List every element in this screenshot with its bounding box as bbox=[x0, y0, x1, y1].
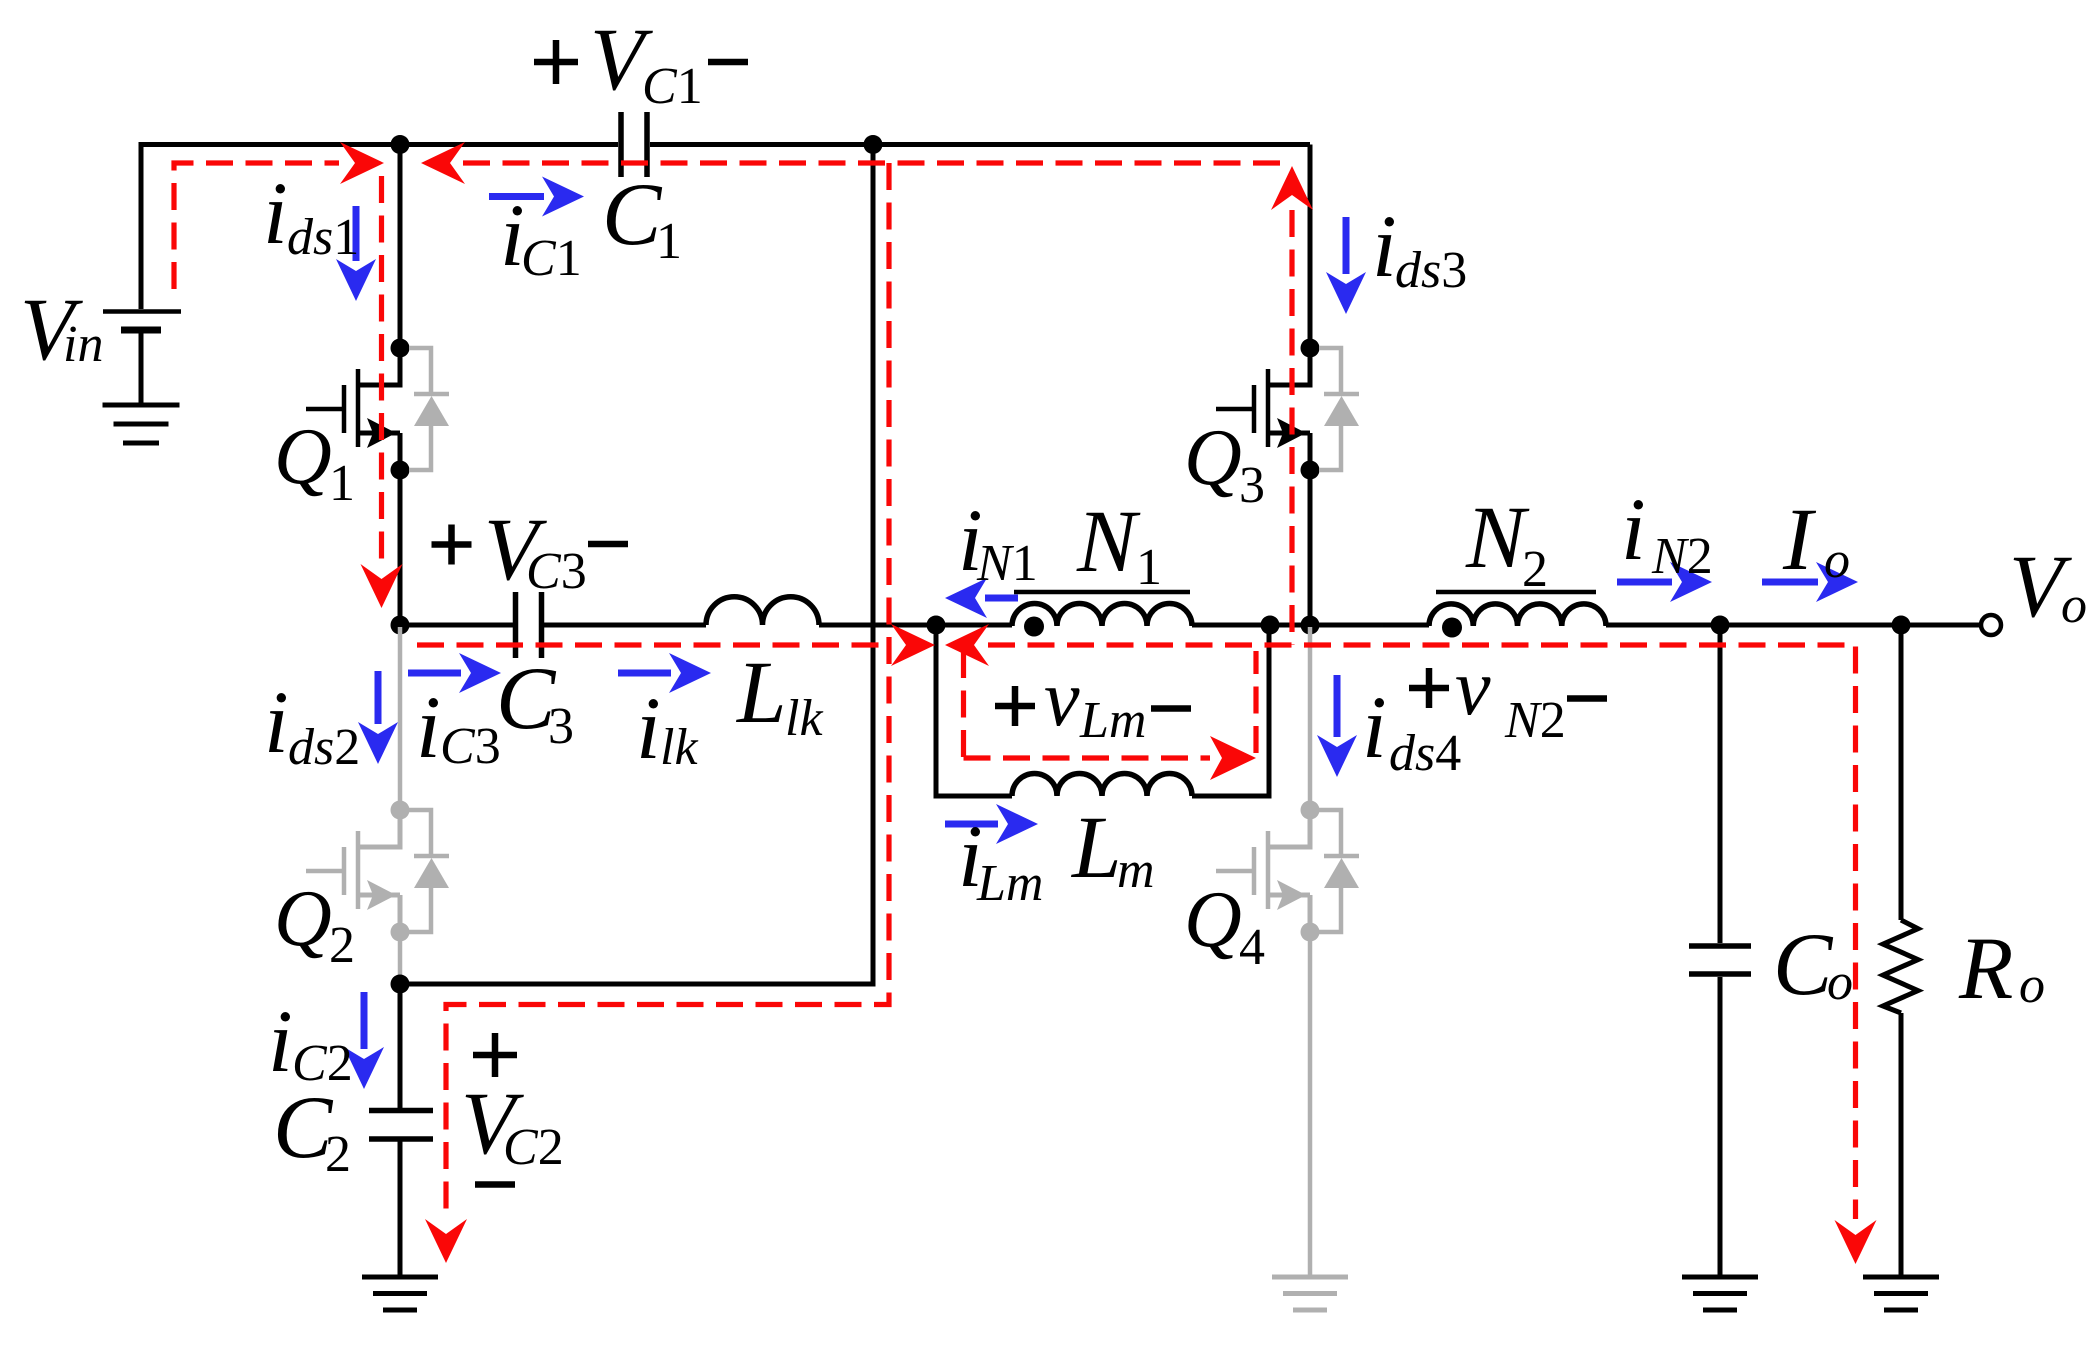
svg-text:o: o bbox=[2019, 957, 2045, 1014]
svg-text:Q: Q bbox=[1184, 876, 1242, 964]
label C1 bbox=[602, 166, 682, 270]
svg-text:i: i bbox=[264, 674, 289, 772]
transistor Q2 (off, gray) bbox=[306, 627, 449, 984]
node Q3-rail dot bbox=[1301, 616, 1320, 635]
capacitor C3 bbox=[516, 592, 542, 658]
node B dot bbox=[391, 616, 410, 635]
svg-text:Q: Q bbox=[274, 875, 332, 963]
wire C2 top lead bbox=[398, 984, 403, 1108]
node Ro dot bbox=[1892, 616, 1911, 635]
svg-text:4: 4 bbox=[1239, 919, 1265, 976]
svg-text:ds2: ds2 bbox=[288, 719, 360, 776]
terminal Vo bbox=[1981, 615, 2001, 635]
svg-text:ds3: ds3 bbox=[1395, 242, 1467, 299]
label N2 bbox=[1465, 489, 1548, 598]
label iN1 bbox=[958, 492, 1038, 592]
wire Q3 drain from top rail bbox=[1308, 145, 1313, 349]
label Vo bbox=[2009, 538, 2087, 636]
svg-text:i: i bbox=[636, 680, 661, 778]
label Co bbox=[1773, 916, 1853, 1014]
current arrow iLm bbox=[945, 804, 1038, 844]
label ids3 bbox=[1372, 198, 1467, 299]
resistor Ro bbox=[1883, 920, 1918, 1013]
wire top rail bbox=[141, 145, 1310, 310]
ground for Ro bbox=[1863, 1277, 1939, 1310]
wire Q1 source to node B bbox=[398, 470, 403, 625]
svg-text:i: i bbox=[1621, 481, 1646, 579]
label iN2 bbox=[1621, 481, 1713, 585]
node top-mid dot bbox=[864, 135, 883, 154]
svg-text:Lm: Lm bbox=[976, 855, 1043, 912]
wire N1-right to Q3 source rail bbox=[1192, 623, 1429, 628]
current arrow ids1 bbox=[336, 206, 376, 301]
red arrow into node A (right) bbox=[340, 142, 384, 184]
label iLm bbox=[958, 808, 1043, 912]
svg-text:N2: N2 bbox=[1651, 528, 1713, 585]
wire node N1-left bbox=[936, 623, 1012, 628]
svg-text:v: v bbox=[1455, 644, 1491, 732]
label Q1 bbox=[274, 413, 355, 512]
svg-text:2: 2 bbox=[1522, 541, 1548, 598]
label ilk bbox=[636, 680, 698, 778]
svg-text:C1: C1 bbox=[521, 230, 582, 287]
label Ro bbox=[1958, 920, 2045, 1018]
svg-text:1: 1 bbox=[1136, 539, 1162, 596]
svg-text:C1: C1 bbox=[642, 58, 703, 115]
red arrow to output ground bbox=[1835, 1220, 1877, 1264]
red path return line bbox=[446, 163, 889, 1220]
svg-text:N: N bbox=[1465, 489, 1530, 587]
label ids2 bbox=[264, 674, 360, 776]
label iC1 bbox=[500, 187, 582, 287]
svg-text:2: 2 bbox=[329, 917, 355, 974]
ground for Co bbox=[1682, 1277, 1758, 1310]
red path Vin to node A bbox=[174, 163, 339, 289]
current arrow ilk bbox=[618, 653, 711, 693]
svg-text:ds1: ds1 bbox=[287, 209, 359, 266]
label Q3 bbox=[1184, 414, 1265, 514]
label +VC2- bbox=[461, 1033, 564, 1185]
current arrow ids4 bbox=[1317, 675, 1357, 777]
current arrow Io bbox=[1762, 562, 1858, 602]
ground for Vin bbox=[103, 405, 180, 443]
red loop Lm bottom edge bbox=[964, 755, 1211, 760]
transistor Q3 bbox=[1216, 339, 1359, 480]
red arrow Q1 down bbox=[361, 564, 403, 608]
svg-text:I: I bbox=[1782, 491, 1817, 589]
svg-text:C: C bbox=[1773, 916, 1834, 1014]
svg-text:C2: C2 bbox=[503, 1119, 564, 1176]
current arrow iN1 bbox=[945, 578, 1018, 618]
polarity dot N1 bbox=[1024, 617, 1044, 637]
red loop Lm right edge bbox=[1253, 651, 1258, 753]
red arrow into node N (right) bbox=[891, 624, 935, 666]
node A dot bbox=[391, 135, 410, 154]
inductor Lm loop bbox=[936, 625, 1269, 796]
node N dot bbox=[927, 616, 946, 635]
svg-text:1: 1 bbox=[329, 455, 355, 512]
node C2 dot bbox=[391, 975, 410, 994]
svg-text:N: N bbox=[1076, 493, 1141, 591]
svg-text:v: v bbox=[1044, 655, 1080, 743]
label C2 bbox=[273, 1079, 351, 1183]
red arrow into C2 ground bbox=[425, 1219, 467, 1263]
svg-text:1: 1 bbox=[656, 213, 682, 270]
svg-text:C3: C3 bbox=[440, 718, 501, 775]
capacitor C1 bbox=[621, 112, 647, 177]
label Lm bbox=[1070, 799, 1155, 899]
svg-text:2: 2 bbox=[325, 1126, 351, 1183]
node N1-right dot bbox=[1261, 616, 1280, 635]
inductor Llk bbox=[706, 597, 819, 625]
capacitor C2 bbox=[369, 1111, 433, 1140]
label Q2 bbox=[274, 875, 355, 974]
svg-text:o: o bbox=[1827, 954, 1853, 1011]
ground for C2 bbox=[362, 1277, 438, 1310]
battery Vin bbox=[103, 312, 181, 404]
label iC2 bbox=[268, 993, 353, 1092]
svg-text:i: i bbox=[268, 993, 293, 1091]
red arrow into node N (left) bbox=[945, 624, 989, 666]
svg-text:3: 3 bbox=[1239, 457, 1265, 514]
wire N2 right to Vo bbox=[1606, 623, 1981, 628]
transistor Q1 bbox=[306, 339, 449, 480]
label +vLm- bbox=[995, 655, 1191, 749]
current arrow iN2 bbox=[1617, 562, 1712, 602]
svg-text:i: i bbox=[416, 679, 441, 777]
winding N2 bbox=[1429, 592, 1606, 626]
svg-text:o: o bbox=[1824, 532, 1850, 589]
node Co dot bbox=[1711, 616, 1730, 635]
wire C2 bottom lead bbox=[398, 1141, 403, 1278]
svg-text:Q: Q bbox=[1184, 414, 1242, 502]
label ids4 bbox=[1362, 679, 1461, 782]
svg-text:C3: C3 bbox=[526, 543, 587, 600]
red path through Q3 up bbox=[1289, 210, 1294, 645]
svg-text:lk: lk bbox=[660, 719, 698, 776]
red path middle left bbox=[417, 642, 891, 647]
red arrow Lm loop (right) bbox=[1210, 736, 1256, 780]
svg-text:R: R bbox=[1958, 920, 2013, 1018]
label N1 bbox=[1076, 493, 1162, 596]
svg-text:o: o bbox=[2061, 577, 2087, 634]
label Io bbox=[1782, 491, 1850, 589]
svg-text:L: L bbox=[1070, 799, 1122, 897]
svg-text:3: 3 bbox=[548, 698, 574, 755]
svg-text:N1: N1 bbox=[976, 535, 1038, 592]
wire middle rail C3-Llk segment bbox=[400, 623, 936, 628]
capacitor Co bbox=[1689, 946, 1751, 974]
transistor Q4 (off, gray) bbox=[1216, 627, 1359, 1278]
red path middle right to output bbox=[988, 645, 1856, 1219]
label C3 bbox=[496, 650, 574, 755]
svg-text:Q: Q bbox=[274, 413, 332, 501]
wire return path vertical bbox=[400, 145, 873, 985]
svg-text:Lm: Lm bbox=[1079, 692, 1146, 749]
svg-text:C: C bbox=[602, 166, 663, 264]
current arrow ids2 bbox=[358, 671, 398, 764]
red arrow into node A (left) bbox=[421, 142, 465, 184]
wire node A to Q1 drain bbox=[398, 145, 403, 349]
svg-text:ds4: ds4 bbox=[1389, 725, 1461, 782]
current arrow iC2 bbox=[344, 992, 384, 1089]
polarity dot N2 bbox=[1442, 618, 1462, 638]
svg-text:i: i bbox=[263, 165, 288, 263]
wire Q3 source down bbox=[1308, 470, 1313, 625]
svg-text:m: m bbox=[1117, 842, 1155, 899]
svg-text:i: i bbox=[1362, 679, 1387, 777]
current arrow iC3 bbox=[408, 653, 501, 693]
svg-text:i: i bbox=[1372, 198, 1397, 296]
red loop Lm left edge bbox=[961, 651, 966, 758]
wire Ro lead bottom bbox=[1899, 1013, 1904, 1278]
label +vN2- bbox=[1409, 644, 1607, 749]
wire Co lead bbox=[1718, 625, 1723, 1278]
red arrow Q3 up bbox=[1271, 166, 1313, 210]
winding N1 bbox=[1012, 592, 1192, 626]
label iC3 bbox=[416, 679, 501, 777]
wire Ro lead top bbox=[1899, 625, 1904, 920]
svg-text:lk: lk bbox=[785, 690, 823, 747]
svg-text:C2: C2 bbox=[292, 1035, 353, 1092]
label +VC1- bbox=[534, 11, 748, 115]
svg-text:in: in bbox=[63, 316, 103, 373]
red path C1 to node A bbox=[463, 160, 1292, 165]
label ids1 bbox=[263, 165, 359, 266]
label Q4 bbox=[1184, 876, 1265, 976]
svg-text:N2: N2 bbox=[1504, 692, 1566, 749]
label Llk bbox=[735, 644, 823, 747]
current arrow iC1 bbox=[489, 177, 584, 217]
label +VC3- bbox=[432, 501, 629, 600]
red path through Q1 bbox=[379, 176, 384, 563]
svg-text:L: L bbox=[735, 644, 787, 742]
current arrow ids3 bbox=[1326, 217, 1366, 314]
label Vin bbox=[20, 281, 103, 379]
ground for Q4 (gray) bbox=[1272, 1277, 1348, 1310]
